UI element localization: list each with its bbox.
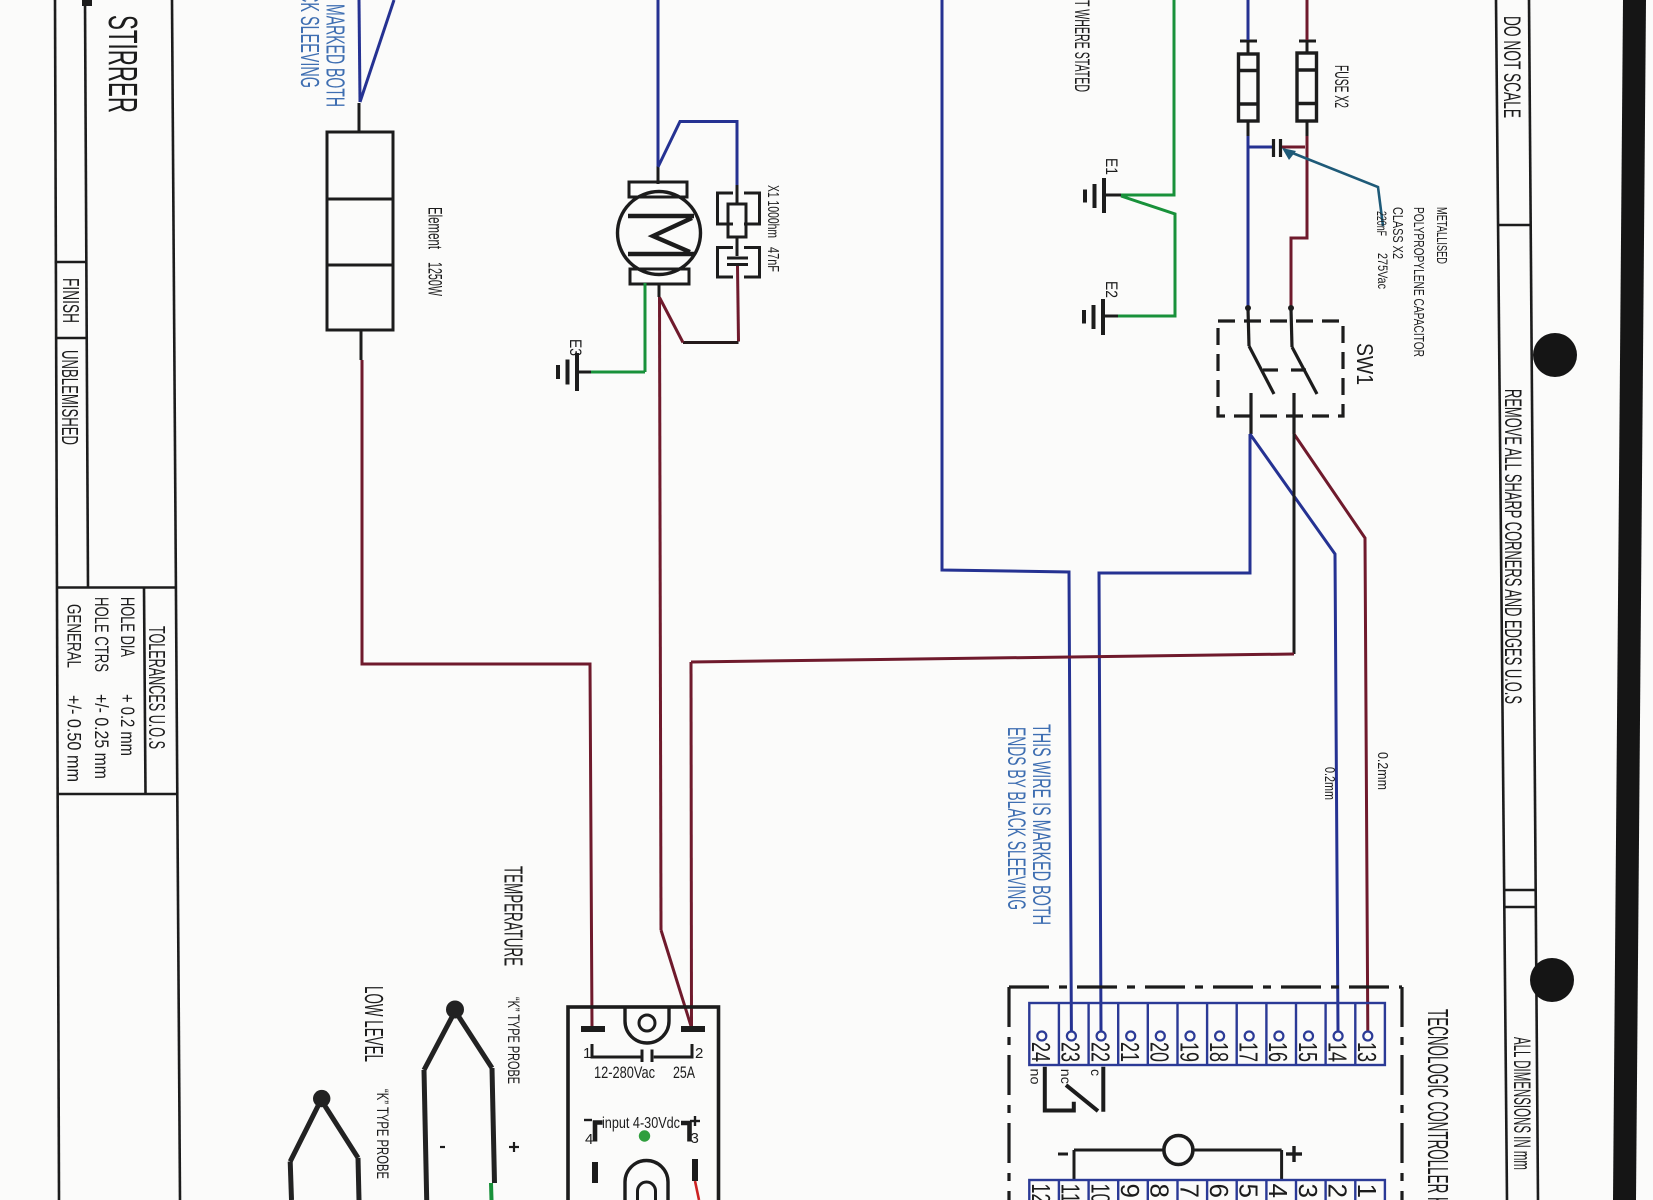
svg-text:STIRRER: STIRRER [100,15,146,113]
svg-text:6: 6 [1204,1184,1234,1198]
svg-text:15: 15 [1293,1042,1323,1062]
svg-text:22: 22 [1085,1042,1115,1062]
svg-text:TECNOLOGIC CONTROLLER K: TECNOLOGIC CONTROLLER K [1421,1009,1453,1200]
svg-text:1250W: 1250W [424,262,445,296]
svg-text:ALL DIMENSIONS IN mm: ALL DIMENSIONS IN mm [1508,1037,1535,1170]
svg-text:8: 8 [1145,1184,1175,1198]
svg-text:23: 23 [1056,1042,1086,1062]
svg-text:3: 3 [1293,1184,1323,1198]
svg-text:SW1: SW1 [1352,343,1378,385]
svg-text:DO NOT SCALE: DO NOT SCALE [1498,16,1525,118]
svg-text:19: 19 [1174,1042,1204,1062]
svg-text:CK SLEEVING: CK SLEEVING [295,0,325,88]
svg-text:275Vac: 275Vac [1375,253,1391,289]
svg-text:T WHERE STATED: T WHERE STATED [1070,0,1093,92]
svg-text:LOW LEVEL: LOW LEVEL [359,986,389,1062]
svg-text:10: 10 [1085,1184,1115,1200]
svg-text:4: 4 [585,1131,593,1148]
svg-text:Element: Element [424,207,445,249]
svg-text:17: 17 [1234,1042,1264,1062]
svg-text:2: 2 [695,1045,703,1062]
svg-text:2: 2 [1322,1184,1352,1198]
svg-text:input 4-30Vdc: input 4-30Vdc [602,1115,680,1132]
svg-text:E3: E3 [566,339,585,356]
svg-text:11: 11 [1056,1184,1086,1200]
svg-text:0.2mm: 0.2mm [1321,767,1338,800]
svg-text:18: 18 [1204,1042,1234,1062]
svg-text:1: 1 [583,1045,591,1062]
svg-text:24: 24 [1026,1042,1056,1062]
svg-text:UNBLEMISHED: UNBLEMISHED [57,350,83,445]
svg-text:+/- 0.50 mm: +/- 0.50 mm [63,695,84,782]
svg-text:FUSE X2: FUSE X2 [1330,65,1351,108]
svg-text:12: 12 [1026,1184,1056,1200]
svg-text:1: 1 [1352,1184,1382,1198]
svg-text:HOLE DIA: HOLE DIA [116,597,137,657]
svg-text:GENERAL: GENERAL [63,604,84,668]
svg-text:CLASS X2: CLASS X2 [1389,207,1406,259]
svg-text:no: no [1028,1069,1044,1085]
svg-text:13: 13 [1352,1042,1382,1062]
svg-text:25A: 25A [673,1063,695,1082]
svg-text:9: 9 [1115,1184,1145,1198]
svg-text:POLYPROPYLENE CAPACITOR: POLYPROPYLENE CAPACITOR [1410,207,1427,357]
svg-text:“K” TYPE PROBE: “K” TYPE PROBE [373,1089,392,1179]
svg-text:“K” TYPE PROBE: “K” TYPE PROBE [504,997,523,1084]
svg-text:47nF: 47nF [764,247,781,272]
svg-text:REMOVE ALL SHARP CORNERS AND E: REMOVE ALL SHARP CORNERS AND EDGES U.O.S [1499,389,1526,704]
svg-text:+/- 0.25 mm: +/- 0.25 mm [90,694,111,779]
svg-text:ENDS BY BLACK SLEEVING: ENDS BY BLACK SLEEVING [1002,727,1030,910]
svg-text:16: 16 [1263,1042,1293,1062]
svg-text:3: 3 [691,1130,699,1147]
svg-text:X1 1000hm: X1 1000hm [764,185,781,238]
svg-text:14: 14 [1322,1042,1352,1062]
svg-text:HOLE CTRS: HOLE CTRS [90,597,111,672]
svg-text:TEMPERATURE: TEMPERATURE [499,866,529,966]
svg-text:THIS WIRE IS MARKED BOTH: THIS WIRE IS MARKED BOTH [1027,724,1055,925]
svg-text:5: 5 [1234,1184,1264,1198]
svg-text:4: 4 [1263,1184,1293,1198]
svg-text:nc: nc [1058,1069,1074,1084]
svg-text:METALLISED: METALLISED [1433,207,1450,264]
svg-text:12-280Vac: 12-280Vac [594,1063,655,1082]
svg-text:E1: E1 [1102,158,1121,175]
svg-text:0.2mm: 0.2mm [1374,752,1391,790]
svg-text:220nF: 220nF [1374,211,1390,236]
svg-text:TOLERANCES U.O.S: TOLERANCES U.O.S [144,626,170,749]
svg-text:20: 20 [1145,1042,1175,1062]
svg-text:7: 7 [1174,1184,1204,1198]
svg-text:FINISH: FINISH [58,278,84,323]
svg-text:21: 21 [1115,1042,1145,1062]
svg-text:E2: E2 [1102,281,1121,298]
svg-text:+ 0.2 mm: + 0.2 mm [116,694,137,756]
